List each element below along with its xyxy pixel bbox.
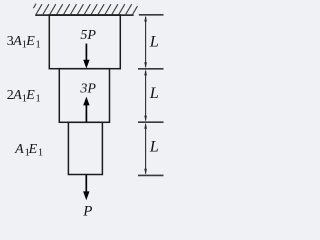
force arrow 5P (downward) [83,44,89,69]
svg-text:L: L [149,32,159,51]
svg-text:A1E1: A1E1 [14,142,43,158]
svg-text:3P: 3P [79,82,96,97]
dimension tick 2 [138,68,164,70]
bar segment 3 (A1E1, bottom) [68,122,102,174]
svg-text:P: P [82,203,92,219]
force arrow P (downward, bottom) [83,175,89,200]
svg-text:2A1E1: 2A1E1 [7,88,41,104]
dimension line L (middle segment) [144,69,147,121]
dimension line L (top segment) [144,16,147,69]
bar segment 1 (3A1E1, top) [49,15,120,69]
force arrow 3P (upward) [83,97,89,122]
dimension tick 4 [138,174,164,176]
dimension line L (bottom segment) [144,123,147,175]
svg-text:L: L [149,137,159,156]
dimension tick 3 [138,121,164,123]
svg-text:5P: 5P [80,28,96,43]
dimension tick 1 [139,14,164,16]
svg-text:3A1E1: 3A1E1 [7,34,41,50]
ceiling line (fixed support) [35,14,133,16]
fixed support hatching [33,4,137,15]
bar segment 2 (2A1E1, middle) [59,69,109,123]
svg-text:L: L [149,83,159,102]
